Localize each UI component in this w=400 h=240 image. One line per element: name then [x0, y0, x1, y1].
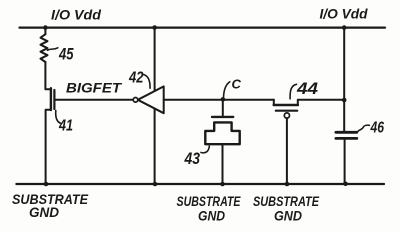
svg-text:SUBSTRATE: SUBSTRATE: [177, 194, 242, 209]
svg-text:41: 41: [58, 117, 73, 134]
svg-text:I/O Vdd: I/O Vdd: [51, 6, 101, 22]
svg-text:I/O Vdd: I/O Vdd: [320, 7, 369, 22]
svg-text:46: 46: [370, 119, 384, 136]
svg-text:BIGFET: BIGFET: [66, 81, 123, 96]
svg-text:GND: GND: [198, 208, 225, 223]
svg-text:GND: GND: [29, 204, 59, 220]
svg-text:42: 42: [128, 69, 143, 86]
svg-text:44: 44: [296, 79, 319, 98]
svg-text:45: 45: [58, 44, 74, 63]
svg-text:GND: GND: [274, 208, 302, 223]
svg-text:43: 43: [184, 149, 201, 168]
svg-text:C: C: [232, 77, 242, 92]
svg-text:SUBSTRATE: SUBSTRATE: [253, 194, 320, 209]
